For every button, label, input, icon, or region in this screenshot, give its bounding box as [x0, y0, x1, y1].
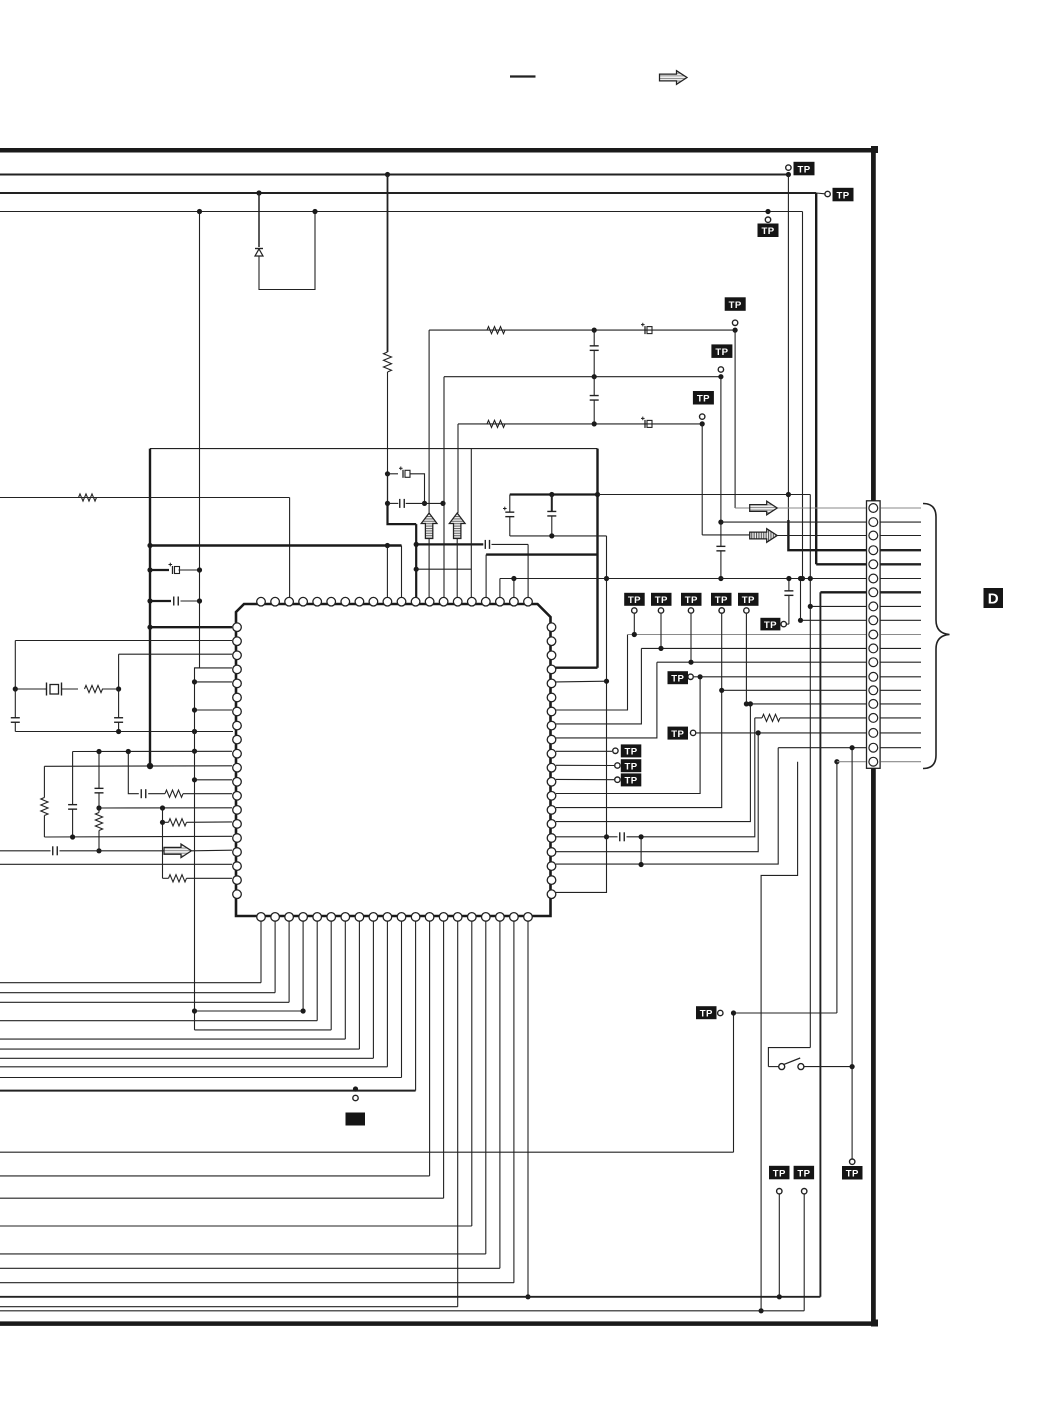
wire B2 to TP2 — [816, 192, 824, 195]
row 620 from rail x800 — [801, 619, 867, 621]
row 1077.5 exit left — [0, 1077, 402, 1079]
capacitor C8 on row 544 — [485, 540, 489, 549]
connector J1 pin circles — [869, 504, 878, 766]
junction x606 row578 — [604, 576, 609, 581]
junction x99 row808 — [96, 805, 101, 810]
junction row RA end — [733, 328, 738, 333]
wire TProw3 down — [690, 614, 692, 663]
wire IC bottom pin13 down — [429, 921, 431, 1176]
thick row 545 from rail — [150, 544, 402, 546]
row 733 TP to connector — [697, 732, 867, 734]
test point circle TPE — [781, 621, 786, 626]
junction TProw2 — [658, 646, 663, 651]
polarized cap C6 — [399, 467, 410, 478]
junction x800 row620 — [798, 618, 803, 623]
test point label TProw1 — [624, 593, 645, 606]
rail from B3 down x=802.5 — [802, 212, 804, 579]
row 747 connector — [778, 747, 866, 749]
resistor R7 vertical x99 — [95, 808, 102, 851]
junction crystal left — [13, 686, 18, 691]
wire R5 to x118 — [102, 688, 119, 690]
junction TP5 row704 — [744, 701, 749, 706]
row 1306.7 exit left — [0, 1306, 458, 1308]
wire to IC left pin4 — [195, 667, 233, 669]
row 992.7 exit left — [0, 992, 275, 994]
row 1090.6 exit left — [0, 1090, 416, 1092]
hatched up arrow A1 — [421, 513, 437, 539]
signal row RA (y=330) — [429, 329, 735, 331]
junction row503 x387 — [385, 501, 390, 506]
test point circle TPF1 — [613, 748, 618, 753]
signal row y=497.5 from left — [0, 497, 290, 499]
junction row494 x552 — [549, 492, 554, 497]
wire row 522 to connector pin2 — [721, 521, 866, 523]
wire x852 down to TP — [851, 1067, 853, 1159]
test point label TP3 — [758, 224, 779, 238]
routing jog to row 761 — [761, 762, 798, 1311]
junction row503 x443 — [440, 501, 445, 506]
test point label TP2 — [833, 188, 854, 202]
wire IC bottom pin14 down — [443, 921, 445, 1198]
wire TPB chain down x=721 — [720, 377, 722, 522]
svg-text:TP: TP — [797, 1168, 810, 1179]
gray wire row 508 to connector — [777, 507, 866, 509]
page dash mark — [510, 75, 536, 77]
test point circle TPH — [690, 730, 695, 735]
polarized cap C9 on x510 — [503, 495, 514, 537]
test point label TPC — [693, 391, 714, 405]
junction x162 row822 — [160, 820, 165, 825]
row 1049.1 exit left — [0, 1048, 359, 1050]
test point circle TPF3 — [615, 777, 620, 782]
wire C19 to x199 — [179, 569, 200, 571]
IC U1 pin pads — [233, 597, 556, 921]
row 1198.2 exit left — [0, 1197, 444, 1199]
rail from B2 thick down x=816 — [815, 193, 817, 564]
wire IC bottom pin18 down — [499, 921, 501, 1268]
wire IC right pin8 up chain — [556, 648, 641, 724]
resistor R8 row793 — [165, 790, 183, 797]
svg-text:TP: TP — [625, 776, 638, 787]
junction row RC x=594 — [592, 421, 597, 426]
wire row554 corner to IC top pin17 — [485, 555, 487, 598]
wire IC right pin14 chain up — [556, 614, 722, 808]
wire x810 down to switch — [809, 579, 811, 1048]
wire x837 up to connector pin19 — [836, 762, 838, 1013]
wire C16 to R8 — [148, 793, 165, 795]
wire x852 up to connector pin18 — [851, 748, 853, 1067]
thick row 544.4 with cap C8 — [416, 543, 483, 545]
capacitor C12 on x15 — [11, 689, 20, 732]
svg-text:TP: TP — [715, 595, 728, 606]
wire IC right pin12 to TP — [556, 778, 614, 780]
junction x721 row578 — [718, 576, 723, 581]
wire IC right pin18 chain up — [556, 748, 778, 864]
test point circle TPB — [718, 367, 723, 372]
capacitor C11 below row578 — [784, 579, 793, 625]
test point circle TPG — [688, 674, 693, 679]
row 1020.7 exit left — [0, 1020, 317, 1022]
wire IC bottom pin6 down — [330, 921, 332, 1030]
row 1268.3 exit left — [0, 1267, 500, 1269]
junction row808 x162 — [160, 805, 165, 810]
junction row503 x424 — [422, 501, 427, 506]
test point label TPL — [794, 1166, 815, 1180]
wire TPA chain down x=735 — [734, 330, 736, 508]
svg-text:TP: TP — [700, 1009, 713, 1020]
connector J1 outline — [867, 501, 881, 769]
capacitor C3 between RB and RC — [590, 377, 599, 424]
row 1282.7 exit left — [0, 1282, 514, 1284]
test point circle TPI — [718, 1010, 723, 1015]
row 1226.0 exit left — [0, 1225, 472, 1227]
bus wire B2 (y=193) — [0, 192, 816, 194]
block rectangle right edge thick x=597.5 — [596, 449, 598, 668]
gnd block — [346, 1113, 366, 1126]
test point label TPA — [725, 297, 746, 311]
thick wire x387 jog — [388, 503, 417, 524]
thick feed wire to IC left pin1 — [150, 626, 232, 628]
wire x128 corner to row793 — [128, 752, 139, 794]
junction x194 pin10 — [192, 749, 197, 754]
crystal top row to IC left pin2 — [15, 640, 232, 642]
svg-text:TP: TP — [797, 164, 810, 175]
direction arrow (top legend) — [660, 71, 688, 85]
wire IC right pin17 chain up — [556, 733, 758, 852]
junction rail802 row578 — [800, 576, 805, 581]
junction row536 x552 — [549, 533, 554, 538]
junction row751 x128 — [126, 749, 131, 754]
test point label TPH — [668, 727, 689, 740]
block rectangle top edge (y=448.6) — [150, 448, 598, 450]
junction row1089 tap — [353, 1086, 358, 1091]
row 717.9 to connector — [755, 714, 866, 721]
wire row766 to IC left pin11 — [44, 765, 232, 768]
test point circle TPC — [700, 414, 705, 419]
capacitor C13 on x118 — [114, 689, 123, 732]
test point label TProw4 — [711, 593, 732, 606]
long vertical from B3 x199 — [199, 212, 201, 668]
wire IC bottom pin5 down — [316, 921, 318, 1021]
svg-text:TP: TP — [655, 595, 668, 606]
junction x597 row494 — [595, 492, 600, 497]
junction x194 pin7 — [192, 707, 197, 712]
wire TPA chain corner to arrow — [735, 507, 749, 509]
wire TP mid stub — [694, 676, 700, 678]
wire IC bottom pin19 down — [513, 921, 515, 1283]
svg-text:TP: TP — [628, 595, 641, 606]
wire row545 down pin10 — [386, 546, 388, 599]
test point circle TP1 — [786, 165, 791, 170]
junction x810 row606 — [808, 604, 813, 609]
wire x471 rect top to IC pin16 — [470, 449, 472, 598]
switch S1 contact A — [779, 1064, 785, 1070]
resistor R6 vertical x44 — [41, 766, 48, 837]
wire C18 to corner x758 — [627, 718, 755, 837]
crystal right row to IC left pin3 — [119, 653, 232, 655]
wire IC bottom pin8 down — [358, 921, 360, 1049]
wire IC bottom pin1 down — [260, 921, 262, 983]
wire corner x810 from row494 — [809, 495, 811, 579]
junction diode loop on B3 — [312, 209, 317, 214]
svg-text:TP: TP — [764, 620, 777, 631]
junction node x387 y473.8 — [385, 471, 390, 476]
wire IC bottom pin11 down — [401, 921, 403, 1078]
signal row RB (y=376.7) — [444, 376, 721, 378]
wire row751 to IC left pin10 — [73, 750, 232, 752]
hatched arrow on row 536 — [750, 529, 778, 543]
bus wire B3 (y=211.5) — [0, 211, 803, 213]
thick row 592 to connector — [820, 591, 866, 593]
junction x758 row733 — [756, 730, 761, 735]
capacitor C18 row836 — [620, 832, 625, 841]
row 864 to IC left pin18 — [0, 863, 232, 865]
row 1066.8 exit left — [0, 1066, 387, 1068]
row 851 to arrow — [60, 850, 166, 852]
wire arrow A1 to IC pin13 — [428, 539, 430, 599]
row 544 thin tail to x528 — [492, 543, 529, 545]
row 1253.9 exit left — [0, 1253, 486, 1255]
wire IC right pin5 to x606 — [556, 680, 607, 683]
bus wire VCC (y=174) — [0, 174, 788, 176]
switch S1 wire to x852 — [804, 1066, 852, 1068]
row 676.8 to connector — [700, 676, 866, 678]
resistor R5 crystal — [85, 685, 103, 692]
test point label TPF1 — [621, 744, 642, 757]
junction switch x852 — [850, 1064, 855, 1069]
row 690.3 to connector — [722, 689, 866, 691]
test point label TPF2 — [621, 759, 642, 772]
junction row522 start — [718, 520, 723, 525]
junction x800 row578 — [798, 576, 803, 581]
wire row578 corner to IC top pin18 — [499, 579, 501, 599]
junction x722 row690 — [719, 688, 724, 693]
wire row330 corner down x429 — [428, 330, 430, 513]
row 1029.9 short — [195, 1029, 332, 1031]
test point label TProw3 — [681, 593, 702, 606]
wire IC bottom pin12 down — [415, 921, 417, 1091]
wire row545 down pin11 — [401, 546, 403, 599]
row 535.9 — [510, 535, 607, 537]
junction row545 x387 — [385, 543, 390, 548]
svg-text:TP: TP — [846, 1169, 859, 1180]
row 1175.9 exit left — [0, 1175, 430, 1177]
wire IC bottom pin3 down — [288, 921, 290, 1002]
test point circle TProw2 — [658, 608, 663, 613]
capacitor C17 row851 — [53, 846, 58, 855]
svg-text:D: D — [988, 591, 999, 608]
junction x199 row601 — [197, 598, 202, 603]
junction on VCC at x=788 — [786, 172, 791, 177]
diode D1 — [255, 249, 263, 257]
wire VCC down at x=387 (upper) — [387, 175, 389, 353]
junction TProw3 — [688, 660, 693, 665]
capacitor C20 row601 — [174, 597, 179, 606]
wire to IC left pin7 — [195, 709, 233, 711]
thick wire x597 to IC right pin4 — [553, 667, 598, 669]
wire TP chain x735 down — [733, 1013, 735, 1152]
vertical x641 link — [640, 837, 642, 865]
wire C20 to x199 — [181, 600, 200, 602]
row 1011 short — [195, 1010, 304, 1012]
junction x836 row761 — [834, 759, 839, 764]
junction bottom row x118 — [116, 729, 121, 734]
wire crystal row left — [15, 688, 44, 690]
row 1039.1 exit left — [0, 1038, 345, 1040]
row 808 to IC left pin14 — [99, 807, 232, 809]
rail VCC thick corner to connector pin4 — [788, 520, 866, 550]
test point circle TProw4 — [719, 608, 724, 613]
junction x150 row570 — [147, 567, 152, 572]
junction on VCC at x=387 — [385, 172, 390, 177]
junction x199 row570 — [197, 567, 202, 572]
junction crystal right — [116, 686, 121, 691]
switch S1 contact B — [798, 1064, 804, 1070]
junction x750 row704 — [748, 701, 753, 706]
row 503.4 with capacitor C7 — [388, 499, 444, 508]
junction x99 row851 — [96, 848, 101, 853]
thick rail x150 end junction — [147, 763, 153, 769]
wire IC bottom pin2 down — [274, 921, 276, 993]
wire IC right pin10 to TP — [556, 750, 612, 752]
wire IC bottom pin10 down — [386, 921, 388, 1067]
wire IC right pin16 chain — [556, 836, 618, 838]
junction x641 row836 — [639, 834, 644, 839]
wire R8 to IC left pin13 — [183, 793, 232, 795]
wire down to IC top pin20 — [527, 544, 529, 598]
row 837 to IC left pin16 — [44, 835, 232, 838]
wire TProw5 down — [745, 614, 747, 704]
junction x416 row569 — [414, 567, 419, 572]
svg-text:TP: TP — [773, 1168, 786, 1179]
wire IC bottom pin15 down — [457, 921, 459, 1307]
capacitor C15 vertical x99 — [95, 752, 104, 809]
junction row578 x514 — [511, 576, 516, 581]
resistor R4 on row 497 — [79, 494, 97, 501]
test point label TProw2 — [651, 593, 672, 606]
svg-text:TP: TP — [836, 190, 849, 201]
wire x800 from row578 down — [800, 579, 802, 621]
resistor R2 on row RA — [487, 327, 505, 334]
test point label TPI — [696, 1006, 717, 1019]
thick vertical x416 to IC pin12 — [415, 524, 417, 598]
row 1296.8 bold — [0, 1296, 820, 1298]
junction row1296 tp — [777, 1294, 782, 1299]
test point circle TProw5 — [744, 608, 749, 613]
test point circle TPF2 — [615, 763, 620, 768]
svg-text:TP: TP — [671, 674, 684, 685]
junction x606 row681 — [604, 679, 609, 684]
test point label TPG — [668, 671, 689, 684]
wire node to polarized cap C6 — [388, 473, 399, 475]
capacitor C10 on x552 — [547, 495, 556, 536]
connector feed thick top — [871, 148, 876, 501]
wire IC right pin9 up chain — [556, 662, 657, 738]
row 569.2 — [416, 568, 471, 570]
junction x194 pin12 — [192, 777, 197, 782]
junction row RC end — [700, 421, 705, 426]
test point circle TProw3 — [688, 608, 693, 613]
junction x150 row601 — [147, 598, 152, 603]
row 648.4 to connector — [641, 647, 866, 649]
svg-text:TP: TP — [761, 226, 774, 237]
wire IC right pin7 up chain — [556, 635, 628, 711]
hatched up arrow A2 — [449, 513, 465, 539]
test point label TPE — [760, 618, 780, 631]
wire IC right pin20 chain up — [556, 837, 607, 893]
row TPI to x837 — [734, 1012, 837, 1014]
junction row545 x150 — [147, 543, 152, 548]
stub row578 to IC top pin19 — [513, 579, 515, 599]
row 703.9 to connector — [746, 703, 866, 705]
gray row 761 connector — [837, 761, 866, 763]
junction TPI — [731, 1010, 736, 1015]
brace — [923, 504, 950, 769]
wire x162 down — [162, 808, 164, 878]
row 1058.3 exit left — [0, 1057, 373, 1059]
thick rail x820 from row592 — [819, 592, 821, 1297]
junction row RB x=594 — [592, 374, 597, 379]
test point label TPB — [711, 344, 732, 358]
junction bus B3 x199 — [197, 209, 202, 214]
board outline corner nub2 — [871, 1320, 878, 1327]
test point label TPF3 — [621, 773, 642, 786]
wire IC right pin15 chain up — [556, 704, 750, 822]
wire IC right pin11 to TP — [556, 764, 614, 766]
test point circle TProw1 — [632, 608, 637, 613]
crystal bottom row — [15, 731, 233, 733]
wire IC bottom pin16 down — [471, 921, 473, 1226]
wire to TPE circle — [787, 623, 789, 625]
row 606 from rail x810 — [810, 605, 866, 607]
wire to IC left pin5 — [195, 681, 233, 683]
junction rail194 row1011 — [192, 1008, 197, 1013]
label D box — [984, 588, 1004, 608]
capacitor C2 between RA and RB — [590, 330, 599, 377]
tap circle GND — [353, 1095, 358, 1100]
board outline bottom edge — [0, 1321, 876, 1326]
test point label TPK — [769, 1166, 790, 1180]
resistor R10 row878 — [163, 875, 233, 882]
thick stub row601 — [150, 600, 171, 602]
connector right stubs — [881, 508, 922, 762]
test point label TPJ — [842, 1166, 863, 1180]
switch S1 stub A — [768, 1066, 778, 1068]
wire IC bottom pin20 down — [527, 921, 529, 1297]
wire IC bottom pin7 down — [344, 921, 346, 1039]
row 1152 full — [0, 1151, 734, 1153]
wire row423 corner down x457 — [457, 424, 459, 513]
switch S1 lever — [784, 1058, 800, 1064]
svg-text:TP: TP — [697, 394, 710, 405]
row 1311.2 — [0, 1310, 804, 1312]
junction on B3 at x=768 — [765, 209, 770, 214]
wire R1 down to node — [387, 372, 389, 474]
wire TProw2 down — [660, 614, 662, 649]
svg-text:TP: TP — [671, 729, 684, 740]
junction row837 x72 — [70, 834, 75, 839]
board outline corner nub — [871, 146, 878, 153]
test point circle TPK — [777, 1189, 782, 1194]
wire row 536 to connector pin3 — [777, 535, 866, 537]
wire diode D1 to bus B3 loop — [259, 212, 315, 290]
svg-text:TP: TP — [625, 747, 638, 758]
hatched arrow on row 851 — [164, 844, 192, 858]
capacitor C16 row793 — [141, 789, 146, 798]
junction x641 row865 — [639, 862, 644, 867]
wire TPK up — [778, 1195, 780, 1297]
junction x761 row1311 — [759, 1308, 764, 1313]
